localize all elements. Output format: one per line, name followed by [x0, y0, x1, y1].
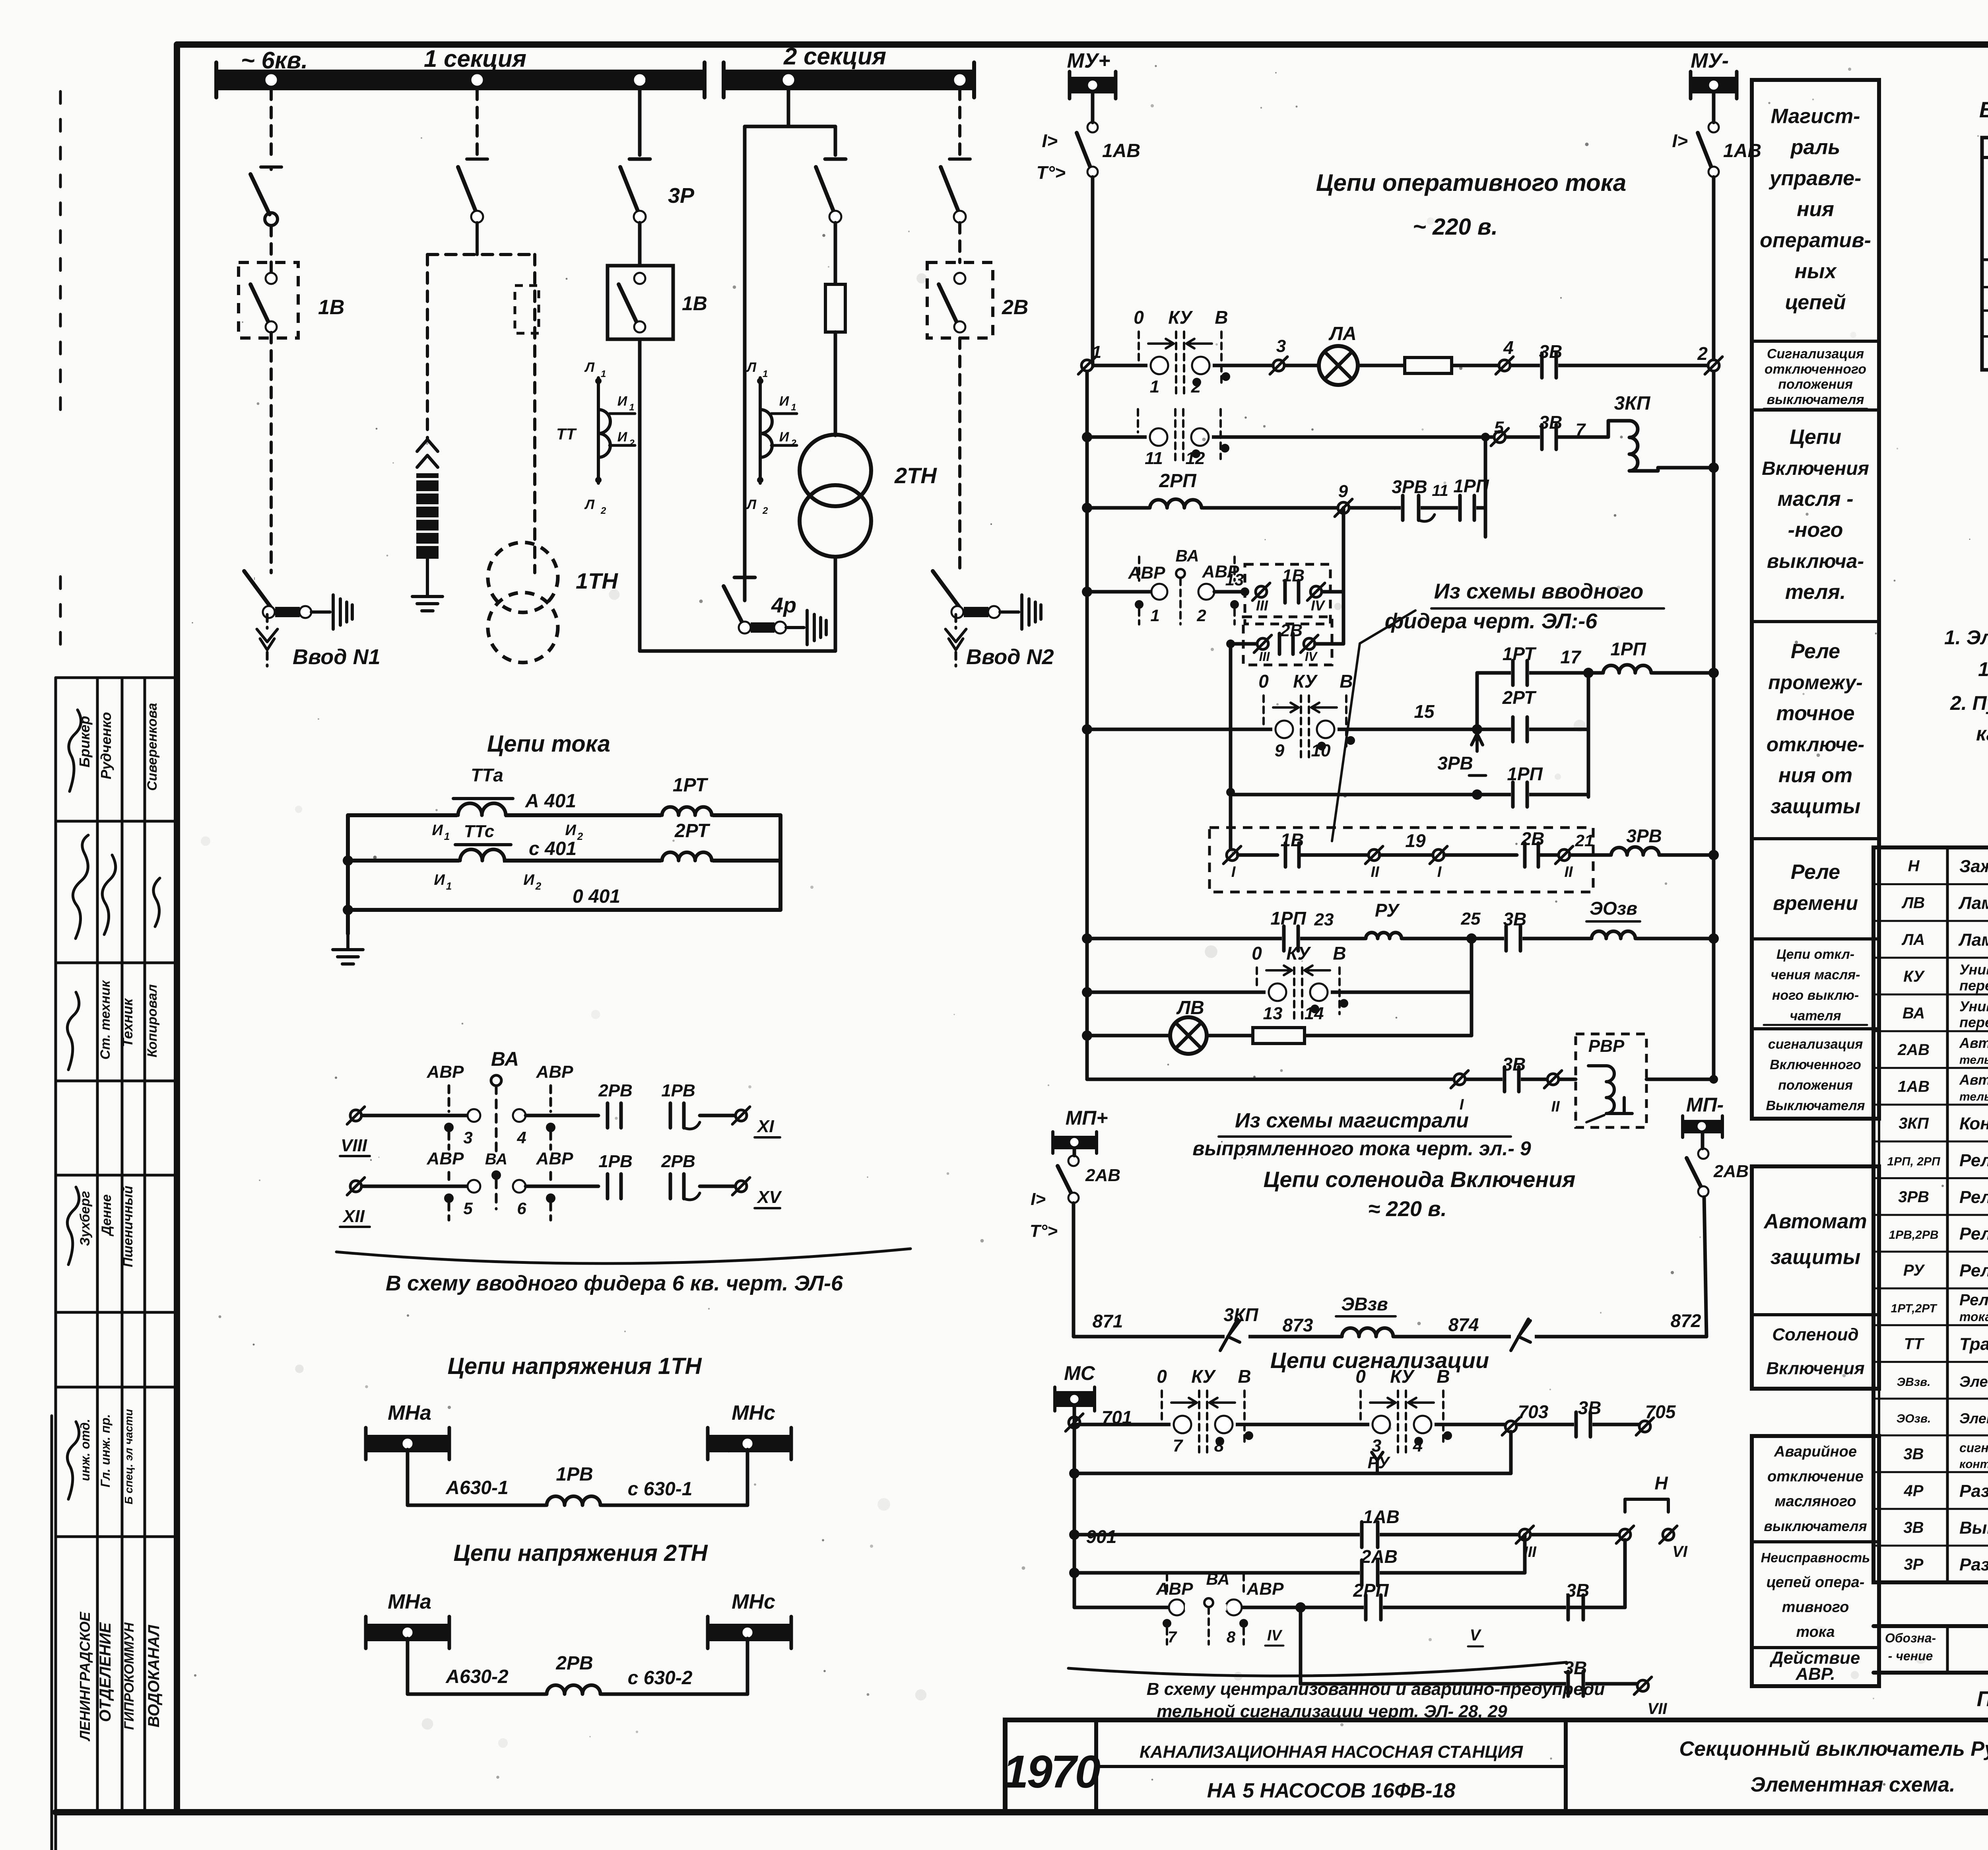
svg-text:ных: ных — [1795, 260, 1837, 283]
svg-text:XII: XII — [342, 1207, 365, 1226]
svg-text:13: 13 — [1225, 570, 1244, 589]
svg-text:3Р: 3Р — [668, 184, 695, 208]
svg-text:Разъединитель: Разъединитель — [1959, 1481, 1988, 1501]
svg-text:V: V — [1470, 1627, 1482, 1644]
svg-text:0: 0 — [1252, 943, 1262, 964]
svg-text:ЭВзв.: ЭВзв. — [1897, 1376, 1931, 1389]
svg-text:Цепи откл-: Цепи откл- — [1776, 947, 1854, 962]
svg-text:0: 0 — [1355, 1366, 1366, 1387]
svg-text:камеры секционного выключ: камеры секционного выключателя. — [1976, 723, 1988, 745]
svg-text:872: 872 — [1671, 1310, 1701, 1331]
svg-text:НА 5 НАСОСОВ 16ФВ-18: НА 5 НАСОСОВ 16ФВ-18 — [1207, 1779, 1456, 1802]
svg-text:1АВ: 1АВ — [1898, 1078, 1930, 1096]
svg-text:1РТ: 1РТ — [1503, 643, 1537, 664]
svg-text:Из схемы магистрали: Из схемы магистрали — [1235, 1109, 1469, 1132]
svg-text:7: 7 — [1173, 1436, 1184, 1456]
svg-text:2РТ: 2РТ — [1502, 687, 1537, 708]
svg-text:3В: 3В — [1903, 1446, 1924, 1463]
svg-text:2: 2 — [1697, 343, 1708, 364]
svg-text:3РВ: 3РВ — [1626, 826, 1662, 846]
svg-text:~ 6кв.: ~ 6кв. — [241, 47, 308, 74]
svg-text:КУ: КУ — [1191, 1366, 1216, 1387]
svg-text:II: II — [1371, 864, 1380, 880]
svg-text:тель: тель — [1959, 1053, 1988, 1067]
svg-text:И: И — [617, 394, 628, 409]
svg-text:отключенного: отключенного — [1765, 361, 1866, 377]
svg-text:Автоматический выключа-: Автоматический выключа- — [1959, 1072, 1988, 1088]
svg-text:-ного: -ного — [1788, 519, 1843, 542]
svg-text:1: 1 — [444, 830, 450, 842]
svg-text:3РВ: 3РВ — [1437, 753, 1473, 773]
svg-text:21: 21 — [1575, 831, 1594, 850]
svg-text:положения: положения — [1778, 377, 1853, 392]
svg-text:1АВ: 1АВ — [1363, 1506, 1400, 1527]
svg-text:И: И — [779, 394, 790, 409]
svg-text:КУ: КУ — [1293, 671, 1318, 692]
svg-text:2: 2 — [600, 505, 606, 516]
svg-text:промежу-: промежу- — [1768, 671, 1863, 694]
svg-text:0: 0 — [1134, 307, 1144, 328]
svg-text:времени: времени — [1773, 892, 1858, 914]
svg-text:Ст. техник: Ст. техник — [98, 980, 113, 1060]
svg-text:РУ: РУ — [1903, 1262, 1925, 1279]
svg-text:Обозна-: Обозна- — [1885, 1631, 1936, 1645]
svg-text:1РТ: 1РТ — [673, 775, 709, 796]
svg-text:1В: 1В — [682, 292, 707, 315]
svg-text:2АВ: 2АВ — [1085, 1166, 1120, 1185]
svg-text:ЛА: ЛА — [1328, 323, 1357, 344]
svg-text:3КП: 3КП — [1899, 1115, 1929, 1132]
svg-text:Реле максимального: Реле максимального — [1959, 1291, 1988, 1309]
svg-text:2РП: 2РП — [1353, 1580, 1389, 1601]
svg-text:Автомат: Автомат — [1763, 1210, 1867, 1233]
svg-text:А 401: А 401 — [525, 791, 576, 812]
svg-text:Выключателя: Выключателя — [1766, 1098, 1865, 1113]
svg-text:КУ: КУ — [1168, 307, 1193, 328]
svg-text:4Р: 4Р — [1904, 1482, 1924, 1500]
svg-text:И: И — [565, 822, 576, 839]
svg-text:ЛВ: ЛВ — [1176, 997, 1204, 1018]
svg-text:2В: 2В — [1521, 828, 1545, 849]
svg-text:I>: I> — [1031, 1189, 1046, 1209]
svg-text:~ 220 в.: ~ 220 в. — [1413, 214, 1498, 240]
svg-text:Л: Л — [746, 497, 757, 512]
svg-text:2АВ: 2АВ — [1713, 1162, 1749, 1181]
svg-text:И: И — [432, 822, 443, 839]
svg-text:2: 2 — [790, 438, 796, 449]
svg-text:Перечень: Перечень — [1977, 1687, 1988, 1711]
svg-text:873: 873 — [1283, 1315, 1313, 1335]
svg-text:3РВ: 3РВ — [1392, 476, 1427, 497]
svg-text:1РВ: 1РВ — [598, 1152, 633, 1171]
svg-text:Цепи: Цепи — [1790, 426, 1841, 449]
svg-text:Т°>: Т°> — [1030, 1221, 1058, 1241]
svg-text:ного выклю-: ного выклю- — [1772, 988, 1859, 1003]
svg-text:Ввод N1: Ввод N1 — [293, 645, 381, 669]
svg-text:874: 874 — [1448, 1314, 1479, 1335]
svg-text:Денне: Денне — [99, 1194, 114, 1236]
svg-text:ВА: ВА — [1903, 1005, 1925, 1022]
svg-text:ВА: ВА — [1206, 1570, 1229, 1588]
svg-text:9: 9 — [1338, 482, 1348, 501]
svg-text:В: В — [1340, 671, 1353, 692]
svg-text:МНс: МНс — [732, 1590, 775, 1613]
svg-text:1ТН: 1ТН — [576, 568, 618, 593]
svg-text:Н: Н — [1908, 857, 1920, 875]
svg-text:1: 1 — [446, 880, 452, 892]
svg-text:защиты: защиты — [1771, 1246, 1860, 1269]
svg-text:3КП: 3КП — [1614, 393, 1651, 414]
svg-text:ЭОзв.: ЭОзв. — [1897, 1412, 1931, 1425]
svg-text:точное: точное — [1776, 702, 1854, 725]
svg-text:1ТН и 2ТН смотри чертеж: 1ТН и 2ТН смотри чертеж ЭЛ- 8 — [1978, 658, 1988, 680]
svg-text:цепей: цепей — [1785, 291, 1846, 314]
svg-text:Неисправность: Неисправность — [1761, 1550, 1870, 1565]
svg-text:ЭВзв: ЭВзв — [1341, 1294, 1388, 1314]
svg-text:1В: 1В — [1281, 830, 1304, 850]
svg-text:В: В — [1238, 1366, 1251, 1387]
svg-text:6: 6 — [517, 1199, 526, 1218]
svg-text:I>: I> — [1672, 130, 1688, 151]
svg-text:Цепи напряжения 2ТН: Цепи напряжения 2ТН — [453, 1540, 708, 1566]
svg-text:Секционный выключатель Ру 6: Секционный выключатель Ру 6кв с АВР. — [1679, 1737, 1988, 1761]
svg-text:1. Элементную схему транс: 1. Элементную схему трансформатора напря… — [1944, 626, 1988, 649]
svg-text:Брикер: Брикер — [76, 716, 93, 768]
svg-text:5: 5 — [463, 1199, 473, 1218]
svg-text:2РВ: 2РВ — [661, 1152, 695, 1171]
svg-text:тивного: тивного — [1782, 1599, 1849, 1615]
svg-text:Реле времени: Реле времени — [1959, 1187, 1988, 1207]
svg-text:11: 11 — [1432, 482, 1448, 499]
svg-text:IV: IV — [1311, 597, 1326, 614]
svg-text:Электромагнит отключения: Электромагнит отключения — [1959, 1410, 1988, 1426]
svg-text:I: I — [1437, 864, 1442, 880]
svg-text:1970: 1970 — [1003, 1746, 1101, 1798]
svg-text:Реле времени: Реле времени — [1959, 1224, 1988, 1244]
svg-text:2: 2 — [629, 438, 635, 449]
svg-text:тель: тель — [1959, 1090, 1988, 1104]
svg-text:2: 2 — [1196, 606, 1206, 625]
svg-text:Реле указательное: Реле указательное — [1959, 1261, 1988, 1281]
svg-text:13: 13 — [1263, 1004, 1283, 1023]
svg-text:VII: VII — [1648, 1700, 1668, 1718]
svg-text:1: 1 — [763, 369, 768, 379]
svg-text:4р: 4р — [771, 593, 796, 617]
svg-text:АВР: АВР — [427, 1149, 464, 1168]
svg-text:1АВ: 1АВ — [1723, 140, 1761, 161]
svg-text:КУ: КУ — [1286, 943, 1311, 964]
svg-text:- чение: - чение — [1888, 1649, 1933, 1663]
svg-text:VIII: VIII — [341, 1136, 367, 1155]
svg-text:1: 1 — [1150, 377, 1159, 396]
svg-text:1: 1 — [629, 402, 634, 413]
svg-text:Н: Н — [1654, 1473, 1668, 1493]
svg-text:ЛЕНИНГРАДСКОЕ: ЛЕНИНГРАДСКОЕ — [77, 1611, 93, 1741]
svg-text:И: И — [779, 429, 790, 445]
svg-text:1: 1 — [601, 369, 606, 379]
svg-text:Включения: Включения — [1762, 458, 1869, 479]
svg-text:Реле: Реле — [1791, 640, 1840, 663]
svg-text:1РТ,2РТ: 1РТ,2РТ — [1891, 1302, 1938, 1315]
svg-text:Пшеничный: Пшеничный — [120, 1185, 136, 1267]
svg-text:0 401: 0 401 — [573, 886, 620, 907]
svg-text:выключа-: выключа- — [1767, 550, 1864, 572]
svg-text:1РП: 1РП — [1270, 908, 1306, 929]
svg-text:раль: раль — [1790, 136, 1840, 159]
svg-text:4: 4 — [516, 1128, 526, 1147]
svg-text:И: И — [617, 429, 628, 445]
svg-text:РУ: РУ — [1375, 900, 1400, 921]
svg-text:КАНАЛИЗАЦИОННАЯ НАСОСНАЯ СТА: КАНАЛИЗАЦИОННАЯ НАСОСНАЯ СТАНЦИЯ — [1140, 1742, 1523, 1762]
svg-text:ЭОзв: ЭОзв — [1590, 898, 1637, 919]
svg-text:25: 25 — [1461, 909, 1481, 929]
svg-text:МУ-: МУ- — [1691, 49, 1729, 72]
svg-text:Аварийное: Аварийное — [1774, 1443, 1857, 1460]
svg-text:4: 4 — [1503, 337, 1514, 358]
svg-text:Цепи соленоида Включения: Цепи соленоида Включения — [1264, 1167, 1576, 1192]
svg-text:выпрямленного тока черт. эл.: выпрямленного тока черт. эл.- 9 — [1192, 1137, 1531, 1160]
svg-text:I>: I> — [1042, 130, 1058, 151]
svg-text:2ТН: 2ТН — [894, 463, 937, 488]
svg-text:2РВ: 2РВ — [598, 1081, 633, 1100]
svg-text:цепей опера-: цепей опера- — [1767, 1574, 1865, 1591]
svg-text:1АВ: 1АВ — [1102, 140, 1140, 161]
svg-text:МС: МС — [1064, 1362, 1095, 1384]
svg-text:ТТ: ТТ — [1904, 1335, 1925, 1353]
svg-text:сигнально - блокировочный: сигнально - блокировочный — [1959, 1441, 1988, 1455]
svg-text:АВР: АВР — [536, 1062, 574, 1082]
svg-text:2: 2 — [577, 830, 583, 842]
svg-text:1 секция: 1 секция — [424, 45, 526, 72]
svg-text:тока: тока — [1959, 1310, 1988, 1324]
svg-text:Б спец. эл части: Б спец. эл части — [122, 1409, 135, 1504]
svg-text:Л: Л — [584, 360, 595, 375]
svg-text:положения: положения — [1778, 1078, 1853, 1093]
svg-text:чателя: чателя — [1790, 1008, 1841, 1023]
svg-text:III: III — [1259, 649, 1270, 664]
svg-text:КУ: КУ — [1903, 968, 1925, 985]
svg-text:Л: Л — [584, 497, 595, 512]
svg-text:РВР: РВР — [1588, 1036, 1625, 1056]
svg-text:ТТа: ТТа — [471, 765, 503, 785]
svg-text:1РВ: 1РВ — [556, 1464, 593, 1485]
svg-text:переключатель: переключатель — [1959, 1014, 1988, 1030]
svg-text:Реле промежуточное: Реле промежуточное — [1959, 1150, 1988, 1170]
svg-text:масляного: масляного — [1774, 1493, 1856, 1510]
svg-text:VI: VI — [1672, 1543, 1688, 1560]
svg-text:IV: IV — [1267, 1627, 1283, 1644]
svg-text:МП+: МП+ — [1066, 1107, 1108, 1129]
svg-text:масля -: масля - — [1777, 488, 1853, 511]
svg-text:8: 8 — [1227, 1628, 1236, 1646]
svg-text:15: 15 — [1414, 701, 1435, 722]
svg-text:23: 23 — [1314, 910, 1334, 929]
svg-text:703: 703 — [1518, 1401, 1549, 1422]
svg-text:А630-2: А630-2 — [445, 1666, 509, 1687]
svg-text:В схему централизованной и: В схему централизованной и аварийно-пред… — [1147, 1679, 1605, 1699]
svg-text:КУ: КУ — [1390, 1366, 1415, 1387]
svg-text:901: 901 — [1086, 1526, 1117, 1547]
svg-text:Универсальный: Универсальный — [1959, 961, 1988, 977]
svg-text:защиты: защиты — [1771, 795, 1860, 818]
svg-text:0: 0 — [1157, 1366, 1167, 1387]
svg-text:АВР: АВР — [1156, 1579, 1194, 1599]
svg-text:3: 3 — [1276, 336, 1286, 356]
svg-text:ния: ния — [1797, 198, 1834, 221]
svg-text:чения масля-: чения масля- — [1771, 967, 1860, 982]
svg-text:ЛВ: ЛВ — [1901, 894, 1925, 912]
svg-text:МУ+: МУ+ — [1067, 49, 1110, 72]
svg-text:ТТ: ТТ — [556, 426, 577, 443]
svg-text:Ввод N2: Ввод N2 — [966, 645, 1054, 669]
svg-text:1: 1 — [1150, 606, 1159, 625]
svg-text:Магист-: Магист- — [1771, 105, 1860, 128]
svg-text:II: II — [1551, 1098, 1560, 1115]
svg-text:ВА: ВА — [491, 1048, 519, 1070]
svg-text:Универсальный: Универсальный — [1959, 998, 1988, 1014]
svg-text:3Р: 3Р — [1904, 1556, 1924, 1573]
svg-text:Цепи тока: Цепи тока — [487, 731, 610, 757]
svg-text:2: 2 — [535, 880, 542, 892]
svg-text:1РП: 1РП — [1507, 764, 1543, 784]
svg-text:Рудченко: Рудченко — [98, 712, 114, 779]
svg-text:2В: 2В — [1002, 296, 1028, 319]
svg-text:выключателя: выключателя — [1764, 1518, 1867, 1534]
svg-text:2РВ: 2РВ — [555, 1653, 593, 1674]
svg-text:3РВ: 3РВ — [1898, 1188, 1929, 1206]
svg-text:3: 3 — [463, 1128, 472, 1147]
svg-text:2. Пунктиром показаны цеп: 2. Пунктиром показаны цепи находящиеся в… — [1950, 692, 1988, 714]
svg-text:Выключатель АВР: Выключатель АВР — [1979, 97, 1988, 122]
svg-text:ТТс: ТТс — [464, 822, 495, 841]
svg-text:1В: 1В — [318, 296, 344, 319]
svg-text:1РП, 2РП: 1РП, 2РП — [1887, 1155, 1941, 1168]
svg-text:И: И — [434, 872, 445, 888]
svg-text:инж. отд.: инж. отд. — [78, 1419, 92, 1481]
svg-text:МНа: МНа — [388, 1590, 431, 1613]
svg-text:отключе-: отключе- — [1767, 733, 1864, 756]
svg-text:Техник: Техник — [119, 998, 136, 1047]
svg-text:≈ 220 в.: ≈ 220 в. — [1368, 1197, 1446, 1221]
svg-text:АВР: АВР — [536, 1149, 574, 1168]
svg-text:II: II — [1564, 864, 1573, 880]
svg-text:XV: XV — [756, 1187, 782, 1207]
svg-text:Выключатель: Выключатель — [1959, 1518, 1988, 1537]
svg-text:В: В — [1333, 943, 1346, 964]
svg-text:Цепи сигнализации: Цепи сигнализации — [1270, 1348, 1489, 1373]
svg-text:В: В — [1215, 307, 1228, 328]
svg-text:III: III — [1256, 597, 1268, 614]
svg-text:с 401: с 401 — [529, 838, 577, 859]
svg-text:с 630-1: с 630-1 — [628, 1479, 693, 1500]
svg-text:1: 1 — [1092, 342, 1101, 362]
svg-text:управле-: управле- — [1769, 167, 1862, 190]
svg-text:Трансформатор тока: Трансформатор тока — [1959, 1334, 1988, 1354]
svg-text:2РТ: 2РТ — [674, 820, 711, 841]
svg-text:АВР: АВР — [1128, 563, 1166, 583]
svg-text:Лампа сигнальная: Лампа сигнальная — [1958, 930, 1988, 950]
svg-text:Сигнализация: Сигнализация — [1767, 346, 1864, 361]
svg-text:МНс: МНс — [732, 1401, 775, 1424]
svg-text:ЛА: ЛА — [1901, 931, 1925, 948]
svg-text:11: 11 — [1145, 449, 1163, 468]
svg-text:выключателя: выключателя — [1767, 392, 1864, 407]
svg-text:МНа: МНа — [388, 1401, 431, 1424]
svg-text:3В: 3В — [1503, 1054, 1526, 1075]
svg-text:Цепи оперативного тока: Цепи оперативного тока — [1316, 169, 1626, 196]
svg-text:Разъединитель: Разъединитель — [1959, 1555, 1988, 1574]
svg-text:отключение: отключение — [1767, 1468, 1864, 1485]
svg-text:Включенного: Включенного — [1770, 1057, 1861, 1072]
svg-text:I: I — [1231, 864, 1236, 880]
svg-text:теля.: теля. — [1785, 581, 1846, 604]
svg-text:Контактор: Контактор — [1959, 1114, 1988, 1133]
svg-text:Гл. инж. пр.: Гл. инж. пр. — [98, 1414, 113, 1487]
svg-text:Т°>: Т°> — [1037, 162, 1066, 183]
svg-text:Зажим испытательный: Зажим испытательный — [1959, 857, 1988, 876]
svg-text:3В: 3В — [1903, 1519, 1924, 1536]
svg-text:тельной сигнализации черт: тельной сигнализации черт. ЭЛ- 28, 29 — [1157, 1702, 1507, 1721]
svg-text:контакт: контакт — [1959, 1458, 1988, 1471]
svg-text:7: 7 — [1168, 1628, 1177, 1646]
svg-text:17: 17 — [1560, 647, 1582, 667]
svg-text:Электромагнит Включения: Электромагнит Включения — [1959, 1374, 1988, 1390]
svg-text:1РВ,2РВ: 1РВ,2РВ — [1889, 1228, 1938, 1242]
svg-text:АВР: АВР — [1246, 1579, 1284, 1599]
svg-text:МП-: МП- — [1686, 1094, 1724, 1116]
svg-text:А630-1: А630-1 — [445, 1477, 508, 1498]
svg-text:ВА: ВА — [485, 1150, 507, 1168]
svg-text:Л: Л — [746, 360, 757, 375]
svg-text:XI: XI — [756, 1117, 774, 1136]
svg-text:АВР: АВР — [427, 1062, 464, 1082]
svg-text:9: 9 — [1275, 741, 1285, 760]
svg-text:Элементная схема.: Элементная схема. — [1751, 1773, 1955, 1796]
svg-text:сигнализация: сигнализация — [1768, 1037, 1863, 1052]
svg-text:1РВ: 1РВ — [661, 1081, 695, 1100]
svg-text:ВОДОКАНАЛ: ВОДОКАНАЛ — [145, 1625, 163, 1728]
svg-text:ОТДЕЛЕНИЕ: ОТДЕЛЕНИЕ — [97, 1622, 114, 1722]
svg-text:2АВ: 2АВ — [1897, 1041, 1930, 1059]
svg-text:с 630-2: с 630-2 — [628, 1667, 693, 1689]
svg-text:оператив-: оператив- — [1760, 229, 1871, 252]
svg-text:2РП: 2РП — [1159, 470, 1197, 492]
svg-text:Реле: Реле — [1791, 861, 1840, 884]
svg-text:АВР.: АВР. — [1795, 1664, 1835, 1684]
svg-text:871: 871 — [1093, 1311, 1123, 1331]
svg-text:3КП: 3КП — [1224, 1304, 1259, 1325]
svg-text:ГИПРОКОММУН: ГИПРОКОММУН — [122, 1622, 137, 1730]
svg-text:В: В — [1437, 1366, 1450, 1387]
svg-text:2: 2 — [762, 505, 768, 516]
svg-text:19: 19 — [1405, 830, 1426, 851]
svg-text:ВА: ВА — [1175, 546, 1199, 565]
svg-text:705: 705 — [1645, 1401, 1676, 1422]
svg-text:Включения: Включения — [1766, 1359, 1864, 1378]
svg-text:И: И — [523, 872, 534, 888]
svg-text:Лампа сигнальная: Лампа сигнальная — [1958, 894, 1988, 913]
svg-text:0: 0 — [1258, 671, 1269, 692]
svg-text:2 секция: 2 секция — [783, 43, 886, 70]
svg-text:IV: IV — [1305, 649, 1318, 664]
svg-text:переключатель: переключатель — [1959, 977, 1988, 993]
svg-text:ния от: ния от — [1778, 764, 1852, 787]
svg-text:5: 5 — [1494, 418, 1504, 437]
svg-text:фидера черт. ЭЛ:-6: фидера черт. ЭЛ:-6 — [1385, 609, 1598, 633]
svg-text:1РП: 1РП — [1610, 639, 1646, 659]
svg-text:Автоматический выключа-: Автоматический выключа- — [1959, 1035, 1988, 1051]
svg-text:Соленоид: Соленоид — [1772, 1325, 1858, 1345]
